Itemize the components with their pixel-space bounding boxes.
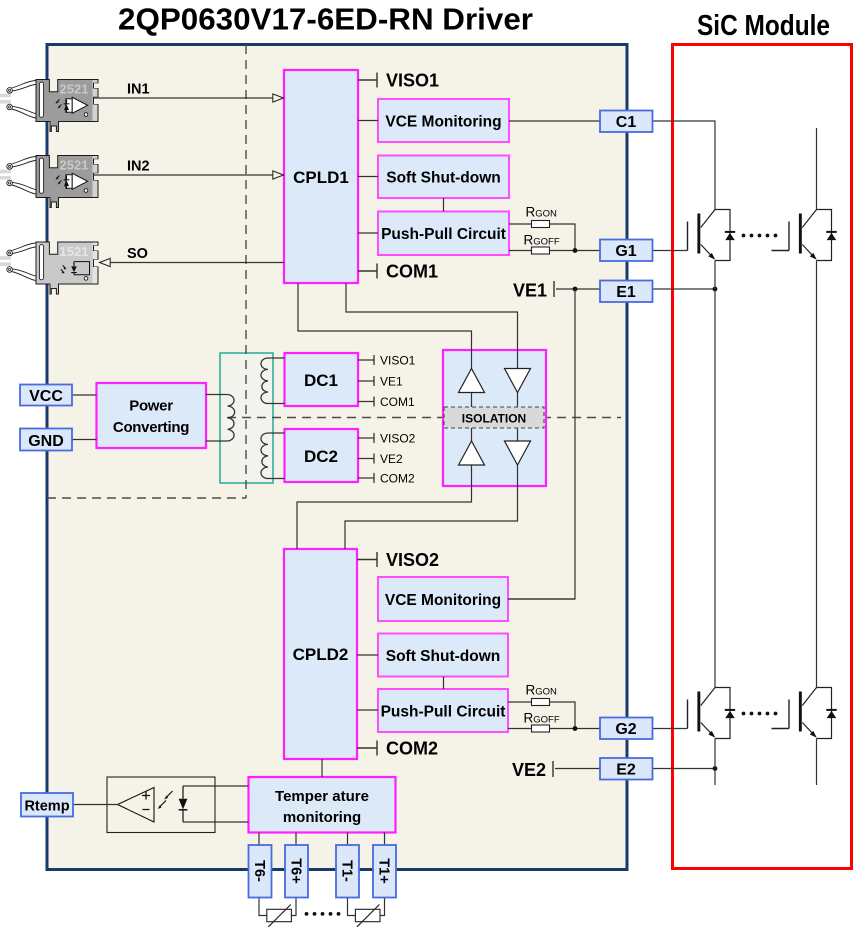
thermistor RT1: [267, 905, 292, 927]
svg-text:DC1: DC1: [304, 371, 338, 390]
wire E2 to SiC leg: [653, 766, 718, 771]
wire Temp monitoring to T6+: [295, 833, 297, 846]
svg-text:DC2: DC2: [304, 447, 338, 466]
svg-text:SiC Module: SiC Module: [697, 10, 830, 42]
wire C1 to SiC leg 1: [653, 121, 716, 210]
svg-text:Power: Power: [129, 398, 173, 415]
svg-text:VISO2: VISO2: [386, 550, 439, 570]
buffer triangle down (bottom-right): [505, 441, 531, 465]
block VCE Monitoring 1: [378, 99, 509, 142]
opto LED diode (temperature): [179, 786, 188, 822]
wire T1+ to thermistor 2: [380, 898, 385, 916]
svg-text:1521: 1521: [60, 244, 89, 259]
block Soft Shut-down 2: [378, 634, 508, 677]
block ISOLATION (buffers): [443, 350, 546, 486]
transformer secondary coil 1: [261, 358, 268, 404]
wire CPLD2 to Soft Shut-down 2: [357, 654, 378, 656]
svg-text:Soft Shut-down: Soft Shut-down: [386, 170, 501, 187]
wire IN2: [94, 159, 284, 180]
svg-text:VISO1: VISO1: [380, 354, 416, 368]
optocoupler chip U3 (1521, SO): [0, 242, 98, 294]
svg-text:CPLD2: CPLD2: [293, 645, 349, 664]
block DC1: [285, 353, 359, 406]
svg-text:COM1: COM1: [380, 395, 415, 409]
ellipsis dots between thermistors: [305, 912, 341, 916]
block Push-Pull Circuit 2: [378, 689, 508, 732]
wire Rtemp to comparator: [73, 804, 118, 806]
transformer secondary coil 2: [261, 433, 268, 479]
resistor RGON 1: [509, 205, 575, 251]
block CPLD1: [284, 70, 358, 283]
wire Power Converting to primary top: [206, 394, 228, 396]
svg-text:SO: SO: [127, 246, 148, 262]
block Power Converting: [97, 383, 207, 448]
svg-text:VISO2: VISO2: [380, 432, 416, 446]
svg-text:E1: E1: [616, 284, 636, 301]
wire CPLD2 to Push-Pull 2: [357, 709, 378, 711]
resistor RGON 2: [508, 683, 575, 729]
svg-text:IN2: IN2: [127, 159, 150, 175]
svg-text:2QP0630V17-6ED-RN Driver: 2QP0630V17-6ED-RN Driver: [118, 2, 533, 37]
gate stub Q4: [772, 728, 790, 730]
resistor RGOFF 2: [508, 711, 600, 733]
svg-text:Push-Pull Circuit: Push-Pull Circuit: [381, 704, 506, 721]
svg-text:VCE Monitoring: VCE Monitoring: [385, 114, 501, 131]
port tick VISO1: [358, 71, 439, 91]
wire leg2 midsection (Q2 emitter to Q4 collector): [816, 261, 818, 688]
svg-text:COM1: COM1: [386, 262, 438, 282]
wire Temp monitoring to T1+: [384, 833, 386, 846]
wire collector stub leg 2: [816, 128, 818, 210]
optocoupler chip U2 (2521, IN2): [0, 156, 98, 208]
wire VCE2 sense (E1 down to VCE Monitoring 2): [508, 289, 575, 599]
svg-text:T1-: T1-: [339, 860, 355, 882]
wire G2 to gate leg3: [653, 728, 688, 730]
wire Q3 emitter tail: [714, 739, 716, 786]
svg-text:GND: GND: [28, 433, 64, 450]
buffer triangle up (bottom-left): [459, 441, 485, 465]
port tick VISO2 small (DC2): [358, 432, 416, 446]
svg-text:Push-Pull Circuit: Push-Pull Circuit: [381, 226, 506, 243]
svg-text:COM2: COM2: [380, 472, 415, 486]
block DC2: [285, 429, 359, 482]
ellipsis dots top pair: [742, 234, 778, 238]
wire T6+ to thermistor 1: [291, 898, 296, 916]
svg-text:VISO1: VISO1: [386, 71, 439, 91]
wire VCE Monitoring 2 right: [508, 598, 575, 600]
wire isolation to CPLD2 (left): [297, 486, 472, 549]
port box E1: [600, 281, 653, 303]
wire G1 to gate leg1: [653, 250, 688, 252]
svg-text:2521: 2521: [60, 81, 89, 96]
port box VCC: [20, 385, 72, 406]
block VCE Monitoring 2: [378, 577, 508, 621]
svg-text:G1: G1: [615, 243, 636, 260]
wire Temp monitoring to T6-: [258, 833, 260, 846]
svg-text:IN1: IN1: [127, 82, 150, 98]
opto light arrows (temperature): [158, 791, 173, 809]
svg-text:C1: C1: [616, 114, 637, 131]
svg-text:2521: 2521: [60, 157, 89, 172]
wire CPLD1 to isolation buffer (right): [346, 283, 518, 350]
svg-text:VCE Monitoring: VCE Monitoring: [385, 592, 501, 609]
svg-text:monitoring: monitoring: [283, 809, 361, 826]
port box E2: [600, 758, 653, 780]
buffer triangle up (top-left): [459, 369, 485, 393]
node VE1: [513, 281, 600, 301]
transformer enclosure (teal): [220, 353, 273, 483]
wire secondary1 to DC1 bottom: [268, 403, 285, 405]
wire opto to Temperature monitoring (top): [183, 785, 249, 787]
svg-text:VE2: VE2: [512, 760, 546, 780]
svg-text:Temper ature: Temper ature: [275, 788, 369, 805]
block CPLD2: [284, 549, 357, 759]
svg-text:T1+: T1+: [376, 858, 392, 883]
wire CPLD1 to Push-Pull 1: [358, 232, 378, 234]
wire Soft Shut-down 1 to Push-Pull 1: [443, 198, 445, 212]
node VE2: [512, 760, 600, 780]
port box G1: [600, 240, 653, 262]
ISOLATION label band: [444, 407, 544, 428]
dashed isolation boundary (vertical): [245, 45, 247, 498]
resistor RGOFF 1: [509, 233, 600, 255]
port tick COM1 small (DC1): [358, 395, 415, 409]
wire opto to Temperature monitoring (bottom): [183, 821, 249, 823]
wire E1 to SiC midpoint: [653, 287, 718, 292]
transformer primary coil: [228, 395, 235, 442]
ellipsis dots bottom pair: [742, 712, 778, 716]
wire isolation right vertical: [517, 350, 519, 486]
svg-text:VE1: VE1: [380, 375, 403, 389]
port tick COM1: [358, 262, 438, 282]
transistor Q1 (SiC top-left): [688, 210, 736, 261]
port tick VE2 small (DC2): [358, 452, 403, 466]
port tick VISO1 small (DC1): [358, 354, 416, 368]
wire VCC to Power Converting: [72, 394, 97, 396]
svg-text:E2: E2: [616, 762, 636, 779]
svg-text:ISOLATION: ISOLATION: [462, 412, 526, 426]
dashed isolation axis (horizontal, through ISOLATION): [227, 417, 621, 419]
svg-text:CPLD1: CPLD1: [293, 168, 349, 187]
block Soft Shut-down 1: [378, 156, 509, 199]
wire IN1: [94, 82, 284, 103]
port box T6-: [249, 845, 272, 898]
port tick COM2 small (DC2): [358, 472, 415, 486]
wire Q4 emitter tail: [816, 739, 818, 786]
transistor Q3 (SiC bottom-left): [688, 688, 736, 739]
driver enclosure box: [47, 45, 627, 870]
svg-text:Converting: Converting: [113, 419, 189, 436]
svg-text:T6-: T6-: [251, 860, 267, 882]
wire GND to Power Converting: [72, 439, 97, 441]
svg-text:COM2: COM2: [386, 739, 438, 759]
port box GND: [20, 429, 72, 451]
wire isolation to CPLD2 (right): [345, 486, 518, 549]
comparator triangle: [118, 788, 155, 823]
wire Power Converting to primary bottom: [206, 440, 228, 442]
port box T1-: [336, 845, 359, 898]
wire SO: [100, 246, 285, 267]
port box T6+: [285, 845, 308, 898]
port box G2: [600, 718, 653, 740]
wire secondary2 to DC2 top: [268, 432, 285, 434]
wire secondary1 to DC1 top: [268, 357, 285, 359]
comparator box (temperature opto): [107, 777, 215, 833]
buffer triangle down (top-right): [505, 369, 531, 393]
thermistor RT2: [355, 905, 380, 927]
transistor Q2 (SiC top-right): [789, 210, 837, 261]
optocoupler chip U1 (2521, IN1): [0, 80, 98, 132]
wire CPLD1 to isolation buffer (left): [298, 283, 472, 350]
svg-text:G2: G2: [615, 721, 636, 738]
wire VCE Monitoring 1 to C1: [509, 120, 600, 122]
wire T6- to thermistor 1: [259, 898, 267, 916]
port box Rtemp: [21, 793, 73, 817]
port tick VISO2: [357, 550, 439, 570]
port tick VE1 small (DC1): [358, 375, 403, 389]
transistor Q4 (SiC bottom-right): [789, 688, 837, 739]
dashed isolation boundary (horizontal lower-left): [47, 497, 246, 499]
wire CPLD1 to Soft Shut-down 1: [358, 176, 378, 178]
wire Temp monitoring to T1-: [347, 833, 349, 846]
block Push-Pull Circuit 1: [378, 212, 509, 256]
svg-text:VE2: VE2: [380, 452, 403, 466]
block Temperature monitoring: [249, 777, 396, 833]
port tick COM2: [357, 739, 438, 759]
gate stub Q2: [772, 250, 790, 252]
wire isolation left vertical: [471, 350, 473, 486]
wire T1- to thermistor 2: [348, 898, 356, 916]
port box C1: [600, 111, 653, 133]
wire CPLD1 to VCE Monitoring 1: [358, 120, 378, 122]
svg-text:VCC: VCC: [29, 388, 63, 405]
svg-text:VE1: VE1: [513, 281, 547, 301]
svg-text:Rtemp: Rtemp: [24, 799, 69, 815]
port box T1+: [373, 845, 396, 898]
SiC module enclosure box: [673, 45, 852, 869]
svg-text:Soft Shut-down: Soft Shut-down: [386, 648, 501, 665]
title: 2QP0630V17-6ED-RN Driver: [118, 2, 533, 37]
wire secondary2 to DC2 bottom: [268, 478, 285, 480]
wire Soft Shut-down 2 to Push-Pull 2: [443, 677, 445, 690]
title: SiC Module: [697, 10, 830, 42]
svg-text:T6+: T6+: [288, 858, 304, 883]
wire leg1 midsection (Q1 emitter to Q3 collector): [714, 261, 716, 688]
wire CPLD2 to Temperature monitoring: [321, 759, 323, 777]
